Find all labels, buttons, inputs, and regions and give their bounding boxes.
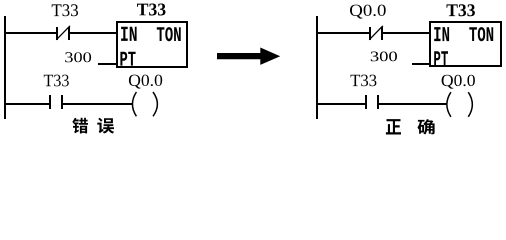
NO contact T33 right bar	[377, 95, 379, 109]
coil Q0.0 left paren	[132, 92, 136, 116]
coil Q0.0 right paren	[153, 92, 157, 116]
label T33 (rung 2 NO contact)	[351, 75, 377, 87]
NC contact T33 slash	[56, 26, 70, 40]
wire 300 to PT pin	[98, 63, 116, 65]
right power rail	[316, 16, 318, 119]
NC contact Q0.0 slash	[369, 26, 383, 40]
caption 误 (wrong)	[97, 118, 114, 134]
pin label IN	[121, 27, 137, 41]
wire NC contact to timer box IN	[70, 32, 116, 34]
caption 错 (wrong)	[72, 118, 88, 134]
NC contact T33 right bar	[68, 27, 70, 40]
value label 300 (preset)	[65, 52, 91, 62]
label T33 (timer box header)	[447, 4, 475, 16]
label Q0.0 (coil)	[442, 75, 475, 89]
wire NO contact to coil	[379, 103, 447, 105]
timer box T33 TON right edge	[186, 21, 188, 68]
wire rail to NC contact	[4, 32, 56, 34]
caption 确 (correct)	[418, 119, 435, 134]
timer box T33 TON left edge	[116, 21, 118, 68]
NO contact T33 left bar	[365, 95, 367, 109]
value label 300 (preset)	[371, 52, 397, 62]
NC contact T33 left bar	[56, 27, 58, 40]
wire rail to NO contact (rung 2)	[4, 103, 49, 105]
wire 300 to PT pin	[412, 63, 429, 65]
pin label TON	[157, 27, 181, 41]
pin label PT	[120, 52, 135, 66]
left power rail	[4, 16, 6, 119]
timer box T33 TON top edge	[116, 21, 188, 23]
pin label PT	[434, 51, 448, 65]
timer box T33 TON bottom edge	[116, 66, 188, 68]
timer box T33 TON right edge	[500, 21, 502, 67]
label T33 (timer box header)	[137, 4, 166, 16]
NO contact T33 right bar	[61, 95, 63, 109]
label T33 (rung 1 NC contact)	[52, 4, 78, 16]
timer box T33 TON bottom edge	[429, 65, 502, 67]
NC contact Q0.0 left bar	[369, 27, 371, 40]
pin label TON	[469, 27, 493, 41]
coil Q0.0 left paren	[447, 92, 451, 117]
pin label IN	[434, 27, 449, 41]
wire rail to NC contact	[318, 32, 369, 34]
caption 正 (correct)	[386, 119, 401, 134]
timer box T33 TON left edge	[429, 21, 431, 67]
NO contact T33 left bar	[49, 95, 51, 109]
coil Q0.0 right paren	[468, 92, 472, 117]
label T33 (rung 2 NO contact)	[44, 75, 69, 87]
label Q0.0 (coil)	[129, 75, 162, 89]
NC contact Q0.0 right bar	[381, 27, 383, 40]
label Q0.0 (rung 1 NC contact)	[350, 5, 386, 19]
wire NO contact to coil	[63, 103, 133, 105]
timer box T33 TON top edge	[429, 21, 502, 23]
wire rail to NO contact (rung 2)	[318, 103, 365, 105]
wire NC contact to timer box IN	[383, 32, 429, 34]
arrow	[217, 48, 280, 65]
